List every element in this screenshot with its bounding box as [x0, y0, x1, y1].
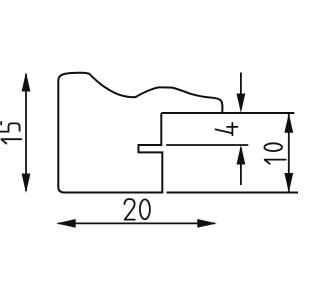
dimension 15 line: [25, 74, 27, 191]
dimension 20 text: digit 2: [125, 199, 135, 220]
dimension 10 text: digit 0: [264, 143, 282, 151]
dimension 15 text: digit 1: [1, 139, 21, 143]
rabbet lip underside extension line (dim 4): [166, 144, 248, 146]
dimension 4 text: digit 4: [216, 123, 238, 135]
bottom extension line (dim 10): [167, 192, 299, 194]
dimension 10 arrow up: [284, 113, 293, 133]
dimension 20 line: [58, 222, 215, 224]
dimension 15 arrow up: [22, 72, 31, 92]
dimension 4 upper leader with down arrow: [240, 73, 242, 96]
dimension 15 arrow down: [22, 174, 31, 194]
dimension 10 arrow down: [284, 173, 293, 193]
dimension 20 arrow left: [56, 219, 75, 228]
dimension 20 arrow right: [197, 219, 217, 228]
dimension 15 text: digit 5: [1, 122, 20, 132]
rabbet step: lip left edge, spline notch, body right edge: [139, 113, 163, 193]
moulding profile outline (left edge, bottom edge, decorative curved face): [58, 73, 222, 193]
dimension 10 line: [288, 114, 290, 192]
dimension 10 text: digit 1: [265, 160, 286, 164]
rabbet top edge / extension line for dims 4 and 10: [161, 112, 294, 114]
dimension 4 lower leader with up arrow: [240, 148, 242, 186]
dimension 20 text: digit 0: [140, 199, 150, 219]
